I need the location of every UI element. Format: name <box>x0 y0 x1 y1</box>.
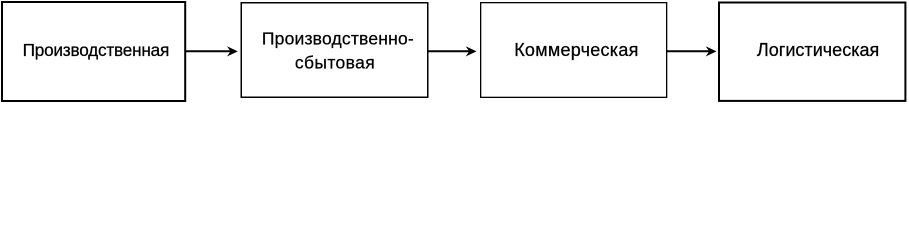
svg-text:Логистическая: Логистическая <box>757 40 879 60</box>
arrow 2: wire <box>429 50 470 52</box>
box Производственная <box>2 2 185 101</box>
svg-text:сбытовая: сбытовая <box>295 52 375 72</box>
arrow 2: head <box>466 46 477 56</box>
svg-text:Коммерческая: Коммерческая <box>514 40 638 60</box>
box Логистическая <box>719 3 905 101</box>
arrow 1: wire <box>186 50 231 52</box>
arrow 3: head <box>706 46 717 56</box>
arrow 3: wire <box>667 50 710 52</box>
box Производственно-сбытовая <box>241 3 428 98</box>
svg-text:Производственно-: Производственно- <box>262 29 414 49</box>
box Коммерческая <box>481 3 667 98</box>
arrow 1: head <box>227 46 238 56</box>
svg-text:Производственная: Производственная <box>23 40 169 60</box>
